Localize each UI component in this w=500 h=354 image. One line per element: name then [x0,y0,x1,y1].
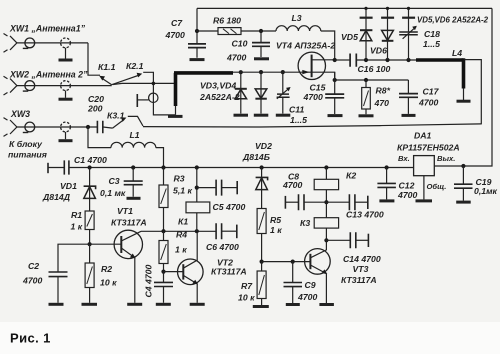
ground under C10 [254,57,269,60]
svg-text:VD6: VD6 [370,46,387,56]
trimmer capacitor C11 [282,72,284,114]
plug probe symbol [136,94,138,107]
node C14 tap [324,238,328,242]
node VD5 rail tap [364,7,367,10]
svg-text:Вх.: Вх. [398,154,410,163]
svg-text:4700: 4700 [226,52,246,62]
svg-text:4700: 4700 [282,180,302,190]
capacitor C12 [386,168,388,200]
ground under C17 [402,114,416,117]
svg-text:КТ3117А: КТ3117А [211,266,247,276]
svg-text:1...5: 1...5 [423,39,440,49]
svg-text:0,1мк: 0,1мк [474,186,498,196]
transistor VT1 [114,230,142,258]
svg-text:4700: 4700 [418,98,438,108]
svg-text:VD3,VD4: VD3,VD4 [200,80,236,90]
ground under C12 [379,199,394,202]
ground under R7 [253,305,269,308]
capacitor C13 [326,201,349,203]
ground under XW2 socket [65,91,67,98]
capacitor C2 [49,272,68,277]
svg-text:5,1 к: 5,1 к [173,185,192,195]
wire K1 chain [196,168,198,203]
svg-text:С1 4700: С1 4700 [74,155,107,165]
node VD2 top [260,165,264,169]
svg-text:L3: L3 [292,13,302,23]
svg-text:С20: С20 [88,94,104,104]
node K2 chain top [324,165,328,169]
svg-text:Общ.: Общ. [427,182,447,191]
node C11 top [281,70,285,74]
capacitor C1 [48,167,90,169]
diode VD5 [365,8,367,60]
inductor L4 strip line [416,58,464,62]
ground under VT1 [127,303,142,306]
wire base VT3 [262,261,311,263]
wire DA1 ground [423,176,425,200]
node VD5 bottom [364,58,368,62]
resistor R5 [257,209,266,234]
ground under C3 [127,197,141,200]
svg-text:200: 200 [87,104,103,114]
wire y60 into C16 [335,59,350,61]
connector XW3 pin circle [25,122,35,132]
node K1 chain top [195,165,199,169]
zener diode VD2 [261,168,263,209]
node R4 bottom [161,270,165,274]
capacitor C7 [196,8,198,57]
resistor R6 [218,28,241,35]
svg-text:470: 470 [374,98,390,108]
node R8 top [364,78,368,82]
wire R6 to C10 to L3 [241,30,276,32]
relay coil K2 [314,179,338,189]
connector XW3 socket circle [61,122,71,132]
svg-text:С2: С2 [28,261,39,271]
svg-text:С5 4700: С5 4700 [213,202,246,212]
inductor L3 [276,26,321,31]
voltage regulator DA1 [414,156,435,176]
wire power branch down to L1 [88,127,111,148]
ground under C7 [190,58,205,61]
wire XW1 down to K1.1 fixed contact [88,43,100,75]
capacitor C1 terminal bar [47,163,49,173]
wire C16 to L4 [357,59,417,61]
svg-text:R4: R4 [176,230,187,240]
svg-text:С7: С7 [171,18,183,28]
ground under C15 [328,114,343,117]
svg-text:К3.1: К3.1 [107,110,125,120]
svg-text:С16 100: С16 100 [358,64,391,74]
node C18 bottom [406,58,410,62]
svg-text:4700: 4700 [22,276,42,286]
svg-text:R2: R2 [101,264,112,274]
node VD4 top [259,70,263,74]
ground under L4 [457,100,471,103]
svg-text:L4: L4 [452,48,462,58]
resistor R7 [261,262,263,271]
capacitor C17 [407,80,409,114]
relay coil K3 [314,218,338,228]
svg-text:С4 4700: С4 4700 [144,264,154,297]
node K1 bottom / C6 / VT2 collector [195,229,199,233]
svg-text:4700: 4700 [397,190,417,200]
VT4 source arrow [302,70,309,74]
wire long rail to K3.1 [143,124,481,127]
wire K2.1 fixed contact corner [143,72,175,115]
svg-text:XW1 „Антенна1”: XW1 „Антенна1” [9,24,86,34]
node VD6 bottom [385,58,389,62]
node C18 rail tap [407,7,410,10]
connector XW2 plug fork [4,76,17,95]
wire K3.1 fixed contact into long rail [128,116,143,126]
svg-text:DA1: DA1 [414,131,432,141]
svg-text:1 к: 1 к [175,244,187,254]
connector XW2 socket circle [61,81,71,91]
svg-text:Вых.: Вых. [437,154,455,163]
diode VD3 [240,72,242,114]
svg-text:С12: С12 [399,180,415,190]
node C1/VD1 [88,165,92,169]
node C5 tap [195,186,199,190]
node R1 bottom [88,242,92,246]
svg-text:10 к: 10 к [238,293,255,303]
capacitor C14 [326,239,350,241]
capacitor C15 [334,80,336,114]
wire XW3 row [17,126,97,128]
svg-text:С17: С17 [423,87,440,97]
svg-text:С9: С9 [305,280,316,290]
wire L4 output to long rail [465,60,482,125]
svg-text:4700: 4700 [297,292,317,302]
ground under C4 [156,303,171,306]
svg-text:КР1157ЕН502А: КР1157ЕН502А [397,143,460,153]
resistor R3 [163,168,165,186]
connector XW1 plug fork [4,34,17,53]
wire L2 to VT4 source through circle [233,72,335,80]
svg-text:С3: С3 [109,176,120,186]
relay contact K3.1 blade [113,120,124,129]
wire L3 to drain node [321,31,335,60]
resistor R4 [163,231,165,240]
capacitor C5 [197,187,216,189]
svg-text:VD1: VD1 [60,181,77,191]
svg-text:С6 4700: С6 4700 [206,242,239,252]
wire switch common to L2 [113,83,174,84]
wire C20 to K3.1 [103,127,113,128]
wire VT2 emitter to ground [196,284,198,303]
svg-text:R3: R3 [174,174,185,184]
capacitor C6 [216,223,222,239]
ground under DA1 [416,199,433,202]
node C10 junction [259,29,263,33]
transistor VT4 [298,52,325,79]
resistor R8 [365,80,367,114]
capacitor C20 [97,121,102,133]
ground under C9 [286,303,300,306]
resistor R1 [85,211,94,230]
wire right edge vertical to DA1 output [434,8,492,166]
ground under C19 [456,201,471,204]
svg-text:С18: С18 [424,29,440,39]
svg-text:Д814Б: Д814Б [242,152,270,162]
wire main supply rail y167.5 [90,167,414,169]
svg-text:1 к: 1 к [71,222,83,232]
svg-text:R5: R5 [270,215,281,225]
connector XW1 pin circle [25,38,35,48]
svg-text:С14 4700: С14 4700 [343,254,381,264]
svg-text:VT1: VT1 [117,206,133,216]
ground under XW3 socket [65,132,67,139]
svg-text:R1: R1 [71,210,82,220]
ground under VD3 [234,114,249,117]
node VT4 drain / L3 / C16 [333,58,337,62]
svg-text:К1.1: К1.1 [98,62,116,72]
svg-text:С10: С10 [232,39,248,49]
node power tap [86,125,90,129]
wire VT4 source down to bypass rail y80 [335,72,409,80]
ground under XW1 socket [65,48,67,59]
node C3 top [131,165,135,169]
svg-text:XW3: XW3 [10,109,30,119]
capacitor C3 [132,168,134,197]
node R5/R7 base node [260,260,264,264]
svg-text:4700: 4700 [165,30,185,40]
svg-text:1 к: 1 к [270,225,282,235]
wire base VT1 [90,243,122,245]
svg-text:К2: К2 [346,171,356,181]
svg-text:VD5: VD5 [341,32,358,42]
node C7/R6 junction [195,29,199,33]
capacitor C16 [350,54,356,67]
svg-text:1...5: 1...5 [290,115,307,125]
svg-text:VT4 АП325А-2: VT4 АП325А-2 [276,41,335,51]
svg-text:К3: К3 [300,218,310,228]
wire XW2 row [17,85,112,87]
connector XW1 socket circle [61,38,71,48]
svg-text:С13 4700: С13 4700 [346,210,384,220]
capacitor C8 [284,196,286,209]
svg-text:КТ3117А: КТ3117А [341,275,377,285]
relay contact K2.1 blade [112,75,140,85]
svg-text:С11: С11 [289,104,304,114]
zener diode VD1 [89,168,91,212]
node L1/R3 [161,165,165,169]
ground under VT2 [190,303,205,306]
inductor L2 strip line [174,71,233,75]
svg-text:VD2: VD2 [255,141,272,151]
ground under VT3 [319,303,334,306]
diode VD6 [387,8,389,60]
svg-text:R6 180: R6 180 [213,16,241,26]
relay coil K1 [186,202,210,213]
trimmer capacitor C18 [408,8,410,60]
svg-text:XW2 „Антенна 2”: XW2 „Антенна 2” [9,70,88,80]
svg-text:К2.1: К2.1 [126,61,144,71]
ground under R8 [359,114,374,117]
wire y31 to R6 [197,30,218,32]
node C15 [333,78,337,82]
ground under L2 [175,106,177,115]
wire top supply rail [197,7,492,9]
capacitor C19 [462,166,464,201]
wire VT1 emitter to ground [134,258,136,303]
svg-text:4700: 4700 [303,92,323,102]
inductor L1 [111,142,156,147]
svg-text:питания: питания [8,150,47,160]
svg-text:2А522А-2: 2А522А-2 [199,92,240,102]
node VD6 rail tap [386,7,389,10]
wire base VT2 [164,271,184,273]
wire XW1 row [17,42,88,44]
svg-text:0,1 мк: 0,1 мк [100,188,126,198]
wire VT3 emitter to ground [325,274,327,303]
capacitor C9 [292,262,294,303]
svg-text:R8*: R8* [376,86,391,96]
ground under VD4 [254,114,268,117]
node C12 top [385,165,389,169]
capacitor C10 [260,31,262,57]
svg-text:10 к: 10 к [100,278,117,288]
wire collector rail y231 [141,230,216,232]
transistor VT3 [305,249,331,275]
node C19 top [461,164,465,168]
ground under R2 [82,303,98,306]
svg-text:Рис. 1: Рис. 1 [10,331,51,346]
transistor VT2 [178,259,204,285]
ground under C11 [276,114,291,117]
node VD3 top [239,70,243,74]
wire L1 to rail [156,148,164,168]
svg-text:R7: R7 [241,281,253,291]
connector XW3 plug fork [4,118,17,137]
wire to C2 [58,244,90,272]
svg-text:К блоку: К блоку [9,139,43,149]
capacitor C4 [163,272,165,303]
resistor R2 [89,244,91,263]
connector XW2 pin circle [25,81,35,91]
node crossing at x153 [152,82,156,86]
diode VD4 [260,72,262,114]
svg-text:КТ3117А: КТ3117А [111,218,147,228]
svg-text:К1: К1 [178,217,188,227]
svg-text:Д814Д: Д814Д [42,192,71,202]
node C8/C13 tap [324,200,328,204]
ground under C2 [49,303,64,306]
svg-text:VT3: VT3 [353,264,369,274]
relay contact K1.1 blade [102,78,112,85]
svg-text:VD5,VD6 2А522А-2: VD5,VD6 2А522А-2 [417,15,489,24]
node C9 top [291,260,295,264]
svg-text:L1: L1 [130,130,140,140]
wire K2 chain [325,168,327,180]
node R3/R4 collector [161,229,165,233]
